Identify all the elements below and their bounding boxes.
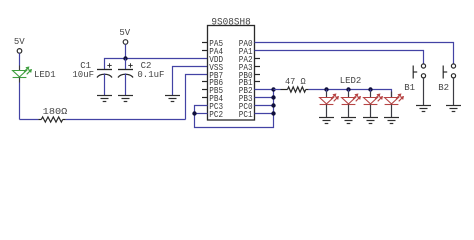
wire resistor to PB7 riser (63, 119, 66, 121)
pin stub PA3 (255, 66, 261, 68)
wire resistor to LED row (306, 89, 309, 91)
LED LED1 (green) (13, 67, 32, 77)
wire riser to PB7 pin (186, 75, 208, 120)
wire LED2b stem (348, 90, 350, 92)
svg-text:LED1: LED1 (34, 70, 56, 80)
svg-text:0.1uF: 0.1uF (137, 70, 164, 80)
wire PC0 to bus (255, 105, 274, 107)
wire PC3 tie down to bus (195, 90, 274, 128)
svg-text:47 Ω: 47 Ω (285, 76, 306, 87)
junction node bus PB3 (271, 95, 275, 99)
svg-text:5V: 5V (14, 37, 25, 47)
wire C1 to ground (104, 73, 106, 95)
supply terminal 5V (left) (17, 49, 22, 54)
wire PA0 to button B2 (255, 43, 454, 64)
wire LED2a stem (326, 90, 328, 92)
svg-text:LED2: LED2 (340, 76, 362, 86)
junction node 5V/C2/VDD (123, 56, 127, 60)
pin stub PA4 (202, 50, 208, 52)
pin stub PB5 (202, 89, 208, 91)
wire bus to resistor R2 (274, 89, 281, 91)
ground (LED2d) (384, 117, 399, 119)
pin labels left column (209, 39, 223, 120)
LED LED2a (red) (320, 94, 339, 104)
wire LED2b to ground (348, 105, 350, 118)
pin labels right column (239, 39, 253, 120)
junction node bus PB2 (271, 87, 275, 91)
ground (LED2c) (363, 117, 378, 119)
ground (C2) (118, 95, 133, 97)
wire VSS to ground (173, 67, 208, 96)
wire LED2c stem (370, 90, 372, 92)
wire PC2 (195, 113, 208, 115)
junction node bus PC1 (271, 111, 275, 115)
wire LED1 cathode down (19, 78, 21, 83)
svg-text:180Ω: 180Ω (43, 106, 68, 117)
pushbutton B2 (443, 64, 455, 79)
resistor R2 47 ohm (288, 87, 306, 92)
svg-text:PC1: PC1 (239, 110, 253, 120)
LED LED2c (red) (364, 94, 383, 104)
wire 5V down to VDD rail (125, 44, 127, 58)
wire C2 to ground (125, 73, 127, 95)
pin stub PB4 (202, 97, 208, 99)
junction node LED row 2 (346, 87, 350, 91)
wire bottom left horizontal (20, 119, 39, 121)
ground (LED2b) (341, 117, 356, 119)
wire PC1 to bus (255, 113, 274, 115)
wire LED2a to ground (326, 105, 328, 118)
LED LED2b (red) (342, 94, 361, 104)
junction node bus PC0 (271, 103, 275, 107)
ground (B1) (416, 105, 431, 107)
pin stub PB6 (202, 81, 208, 83)
junction node PC2 (192, 111, 196, 115)
capacitor C2 0.1uF (118, 63, 133, 77)
svg-text:9S08SH8: 9S08SH8 (211, 16, 250, 28)
ground (B2) (446, 105, 461, 107)
junction node LED row 3 (368, 87, 372, 91)
wire PA1 to button B1 (255, 51, 424, 64)
pin stub PB0 (255, 74, 261, 76)
wire B2 to ground (453, 78, 455, 106)
wire LED2c to ground (370, 105, 372, 118)
ground (VSS) (165, 95, 180, 97)
wire C2 stem (125, 59, 127, 70)
ground (LED2a) (319, 117, 334, 119)
svg-text:B1: B1 (404, 83, 415, 93)
ground (C1) (97, 95, 112, 97)
wire B1 to ground (423, 78, 425, 106)
pin stub PA2 (255, 58, 261, 60)
wire VDD rail (105, 59, 208, 70)
resistor R1 180 ohm (41, 117, 62, 122)
IC U1 9S08SH8 (208, 26, 255, 121)
capacitor C1 10uF (97, 63, 112, 77)
svg-text:10uF: 10uF (72, 70, 94, 80)
wire PB3 to bus (255, 97, 274, 99)
LED LED2d (red) (385, 94, 404, 104)
wire 5V to LED1 anode (19, 53, 21, 65)
pin stub PA5 (202, 42, 208, 44)
pin stub PB1 (255, 81, 261, 83)
pushbutton B1 (413, 64, 425, 79)
junction node LED row 1 (324, 87, 328, 91)
wire PB2 to bus (255, 89, 274, 91)
wire LED2d to ground (391, 105, 393, 118)
supply terminal 5V (middle) (123, 40, 128, 45)
svg-text:5V: 5V (119, 28, 130, 38)
svg-text:PC2: PC2 (209, 110, 223, 120)
svg-text:B2: B2 (438, 83, 449, 93)
